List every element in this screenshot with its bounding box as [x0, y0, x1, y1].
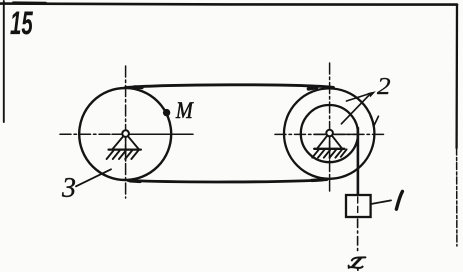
rope from inner drum	[357, 128, 360, 196]
label 2 leader stroke B	[341, 96, 368, 124]
belt top run right tangent blob	[309, 88, 317, 89]
label 2 tick on outer rim	[370, 116, 378, 125]
label 3	[62, 178, 75, 197]
pulley 3 support ground line	[109, 148, 141, 150]
point M dot	[163, 109, 170, 116]
label M	[176, 102, 194, 118]
pulley 2 centerline solid part horizontal	[314, 133, 356, 135]
label 3 leader line	[76, 169, 111, 186]
frame top border doubled segment	[13, 1, 46, 3]
belt top run left tangent blob	[135, 85, 143, 89]
label 2 leader arrowhead	[368, 91, 376, 97]
belt bottom run	[128, 180, 327, 182]
pulley 3 rim circle	[79, 88, 171, 180]
pulley 3 centerline solid part vertical	[125, 133, 127, 161]
frame right border lower dashed part	[456, 148, 458, 246]
pulley 3 support triangle	[113, 136, 139, 149]
label 1 leader line	[371, 200, 391, 204]
label 2	[377, 78, 390, 94]
belt bottom run left tangent blob	[130, 179, 140, 183]
pulley 3 support hatching	[107, 151, 139, 159]
problem number 15	[10, 12, 33, 35]
pulley 3 centerline horizontal	[60, 133, 193, 135]
pulley 2 support hatching	[312, 149, 346, 157]
frame left border	[3, 1, 5, 122]
pulley 2 support triangle	[317, 136, 341, 149]
belt top run	[125, 85, 334, 88]
weight 1 box	[346, 195, 371, 217]
axis x dash-dot below weight	[357, 219, 359, 252]
weight centerline dash inside box	[357, 197, 359, 215]
pulley 2 support ground line	[314, 148, 344, 150]
pulley 2 inner drum circle	[301, 105, 358, 162]
pulley 2 outer rim circle	[284, 88, 374, 178]
pulley 2 pivot pin	[326, 130, 333, 137]
pulley 2 centerline solid part vertical	[329, 132, 331, 159]
label 1 handwritten stroke	[396, 191, 402, 209]
frame top border	[0, 4, 457, 5]
pulley 3 centerline vertical	[125, 66, 127, 198]
pulley 3 centerline solid part horizontal	[112, 133, 192, 135]
belt bottom run right tangent blob	[312, 178, 322, 182]
label 2 leader stroke A with arrow	[347, 93, 372, 101]
frame right border	[455, 5, 458, 149]
label x	[349, 257, 366, 270]
pulley 3 pivot pin	[122, 130, 129, 137]
pulley 2 centerline horizontal	[275, 133, 386, 135]
pulley 2 centerline vertical	[329, 63, 331, 191]
